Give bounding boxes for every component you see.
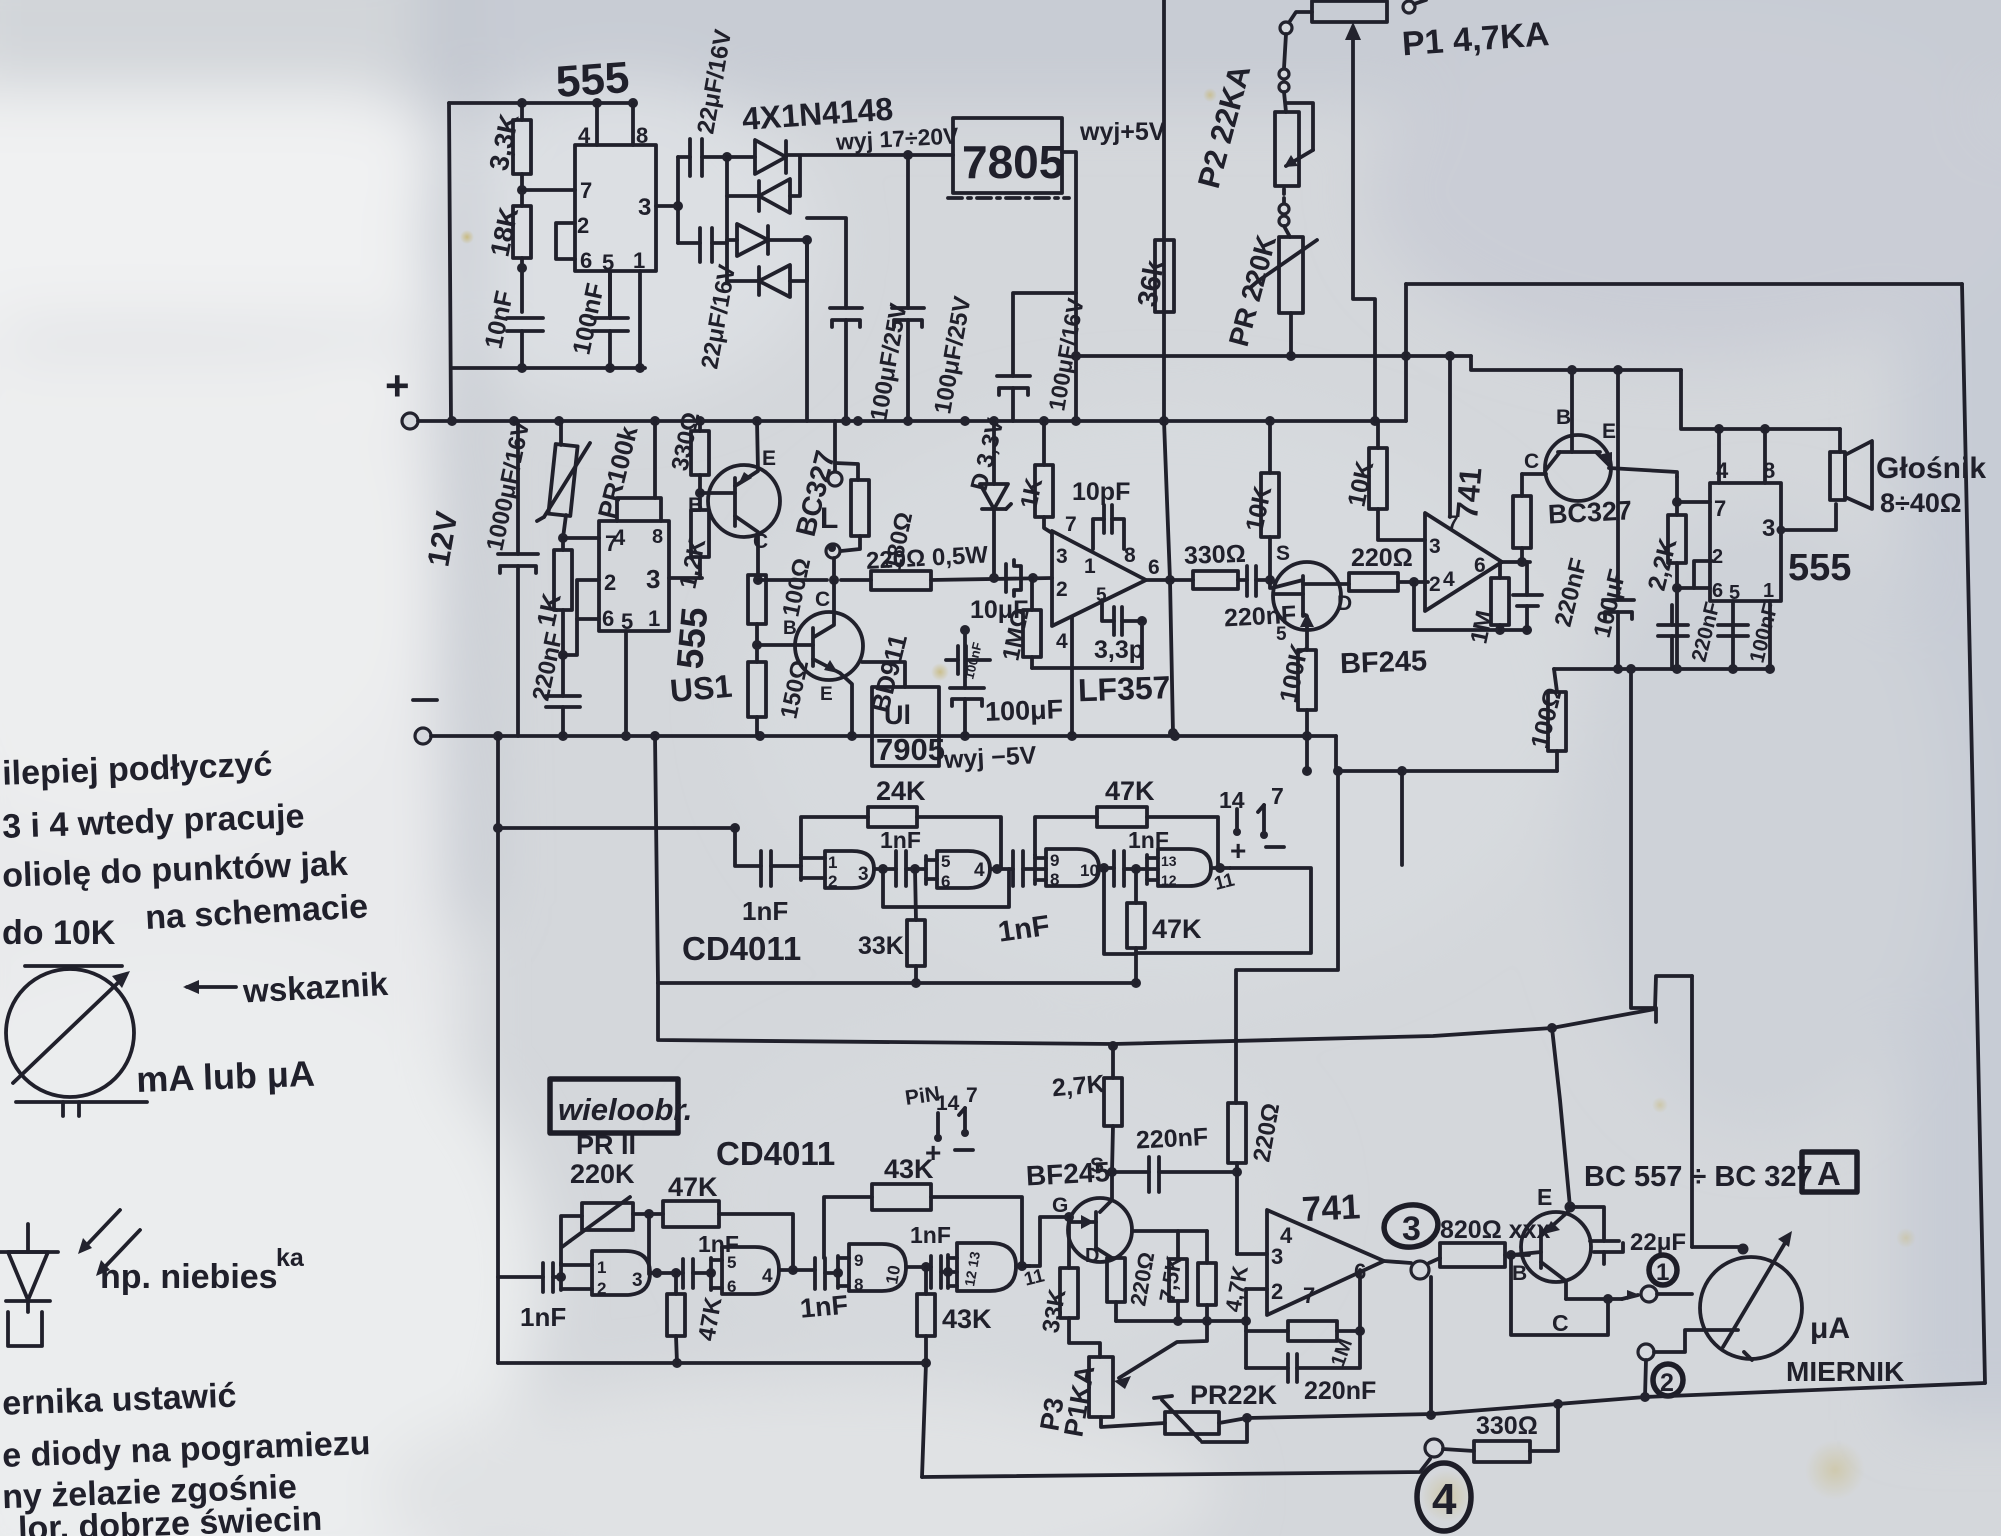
terminal - (12V input) <box>415 728 431 744</box>
wire gate feed from G8 output <box>1022 1217 1069 1266</box>
svg-text:3: 3 <box>1056 545 1068 568</box>
svg-text:3: 3 <box>638 194 651 221</box>
gate G2 (CD4011) <box>924 856 928 884</box>
terminal + (12V input) <box>402 413 418 429</box>
svg-text:330Ω: 330Ω <box>1476 1412 1538 1440</box>
wire pin5 to -rail <box>624 631 628 736</box>
svg-text:1: 1 <box>648 606 660 631</box>
svg-text:7: 7 <box>1303 1283 1315 1308</box>
IC UL 7905 regulator <box>872 687 939 766</box>
svg-text:L: L <box>820 502 838 535</box>
svg-text:B: B <box>1556 406 1571 429</box>
svg-text:1: 1 <box>1763 580 1774 602</box>
svg-text:9: 9 <box>1050 851 1059 870</box>
svg-text:+: + <box>385 362 410 409</box>
wire bottom long line <box>922 1459 1430 1477</box>
wire collector to terminal 1 <box>1566 1297 1622 1301</box>
wire +5V feed line y356 <box>1076 354 1471 358</box>
svg-text:wyj+5V: wyj+5V <box>1079 118 1166 146</box>
svg-text:E: E <box>1602 420 1616 443</box>
svg-text:C: C <box>1552 1310 1569 1336</box>
wire base-collector loop <box>1511 1255 1608 1335</box>
svg-text:4: 4 <box>1432 1475 1457 1524</box>
svg-text:3: 3 <box>1402 1210 1421 1248</box>
resistor 24K <box>801 817 868 855</box>
capacitor 1nF (G5-G6) <box>681 1259 685 1288</box>
capacitor 220nF (feedback) <box>1525 562 1529 595</box>
photodiode symbol <box>0 1250 58 1254</box>
diode D4 1N4148 <box>759 265 790 297</box>
svg-text:14: 14 <box>936 1092 960 1115</box>
svg-text:+: + <box>925 1137 941 1168</box>
svg-text:8: 8 <box>854 1275 863 1294</box>
resistor 220R (drain) <box>1107 1258 1125 1302</box>
svg-text:8: 8 <box>636 123 648 148</box>
svg-text:C: C <box>753 530 768 553</box>
wire bottom bus row2 <box>498 1361 926 1365</box>
svg-text:1: 1 <box>633 248 645 273</box>
potentiometer P1 4,7KA <box>1312 1 1387 22</box>
svg-text:4: 4 <box>613 525 626 550</box>
wire bottom feedback line L1 <box>1247 1383 1985 1418</box>
wire LF357 output <box>1146 578 1193 582</box>
svg-text:22μF: 22μF <box>1630 1229 1686 1256</box>
capacitor 22uF <box>1570 1207 1604 1241</box>
wire terminal1 to meter <box>1657 1292 1692 1296</box>
svg-text:4: 4 <box>1280 1223 1293 1248</box>
wire pin3 input <box>1237 1252 1267 1256</box>
svg-text:555: 555 <box>669 606 715 671</box>
wire right feed down from y284 line <box>1404 284 1408 421</box>
gate G1 (CD4011) <box>799 855 803 880</box>
resistor 1,2K <box>691 510 709 557</box>
svg-text:4: 4 <box>578 123 591 148</box>
wire block left drop from -rail <box>655 736 658 983</box>
wire node column pin3 <box>676 157 680 243</box>
potentiometer P2 22KA <box>1275 112 1299 186</box>
svg-text:6: 6 <box>1712 580 1723 602</box>
svg-text:7: 7 <box>1271 783 1284 809</box>
svg-text:8: 8 <box>1050 870 1059 889</box>
IC U1 555 body <box>575 145 656 271</box>
svg-text:LF357: LF357 <box>1077 669 1171 708</box>
wire left rail of 555 block <box>449 103 451 421</box>
svg-text:13: 13 <box>1161 853 1177 869</box>
resistor 1K (pin3 bias) <box>1042 421 1046 465</box>
svg-text:E: E <box>1537 1184 1552 1210</box>
meter symbol (wskaznik) <box>6 969 134 1097</box>
wire 741 output <box>1384 1261 1411 1263</box>
svg-text:Ul: Ul <box>884 700 911 730</box>
capacitor 100uF (7905 output) <box>963 630 967 688</box>
resistor 180R <box>851 480 869 536</box>
svg-text:741: 741 <box>1301 1187 1361 1229</box>
gate G7 <box>836 1256 840 1288</box>
gate G6 <box>709 1258 713 1290</box>
capacitor 100nF <box>592 316 628 320</box>
transistor BC327 (Q3) <box>1545 435 1611 501</box>
svg-text:wskaznik: wskaznik <box>241 965 389 1010</box>
svg-text:6: 6 <box>1148 556 1160 579</box>
op-amp 741 (U4) <box>1267 1210 1384 1315</box>
wire +12V rail <box>418 419 1406 423</box>
resistor 820R <box>1429 1258 1440 1263</box>
svg-text:6: 6 <box>941 872 950 891</box>
capacitor 220nF (coupling) <box>1245 566 1249 596</box>
svg-text:100μF: 100μF <box>984 694 1063 727</box>
capacitor 1nF (G7-G8) <box>929 1256 933 1288</box>
resistor 330R (bottom) <box>1443 1449 1474 1451</box>
terminal L upper (open circle) <box>833 421 837 471</box>
wire bottom bus of 555 block <box>452 366 645 370</box>
wire top-right horizontal y284 <box>1406 282 1962 286</box>
resistor 220R 0,5W <box>871 571 931 590</box>
wire bias node y1321 <box>1116 1319 1246 1323</box>
svg-text:3: 3 <box>1429 535 1441 558</box>
svg-text:2: 2 <box>577 213 589 238</box>
wire pin7 stub <box>563 536 599 540</box>
wire pin7 up to +5V line <box>1448 356 1452 517</box>
svg-text:1nF: 1nF <box>520 1302 566 1332</box>
wire pin2 input <box>1246 1287 1267 1291</box>
node top bus dots <box>517 98 527 108</box>
wire output down to feedback line <box>1429 1277 1433 1414</box>
capacitor 100uF/25V (A) <box>807 218 846 308</box>
svg-text:2: 2 <box>597 1279 606 1298</box>
terminal L lower (open circle) <box>826 544 840 558</box>
svg-text:+: + <box>1230 835 1246 866</box>
svg-text:555: 555 <box>1788 547 1851 589</box>
circled 2 <box>1653 1364 1683 1396</box>
svg-text:33K: 33K <box>858 932 904 960</box>
svg-text:47K: 47K <box>668 1172 718 1202</box>
resistor 150R <box>748 662 766 717</box>
svg-text:μA: μA <box>1810 1312 1850 1345</box>
svg-text:7: 7 <box>580 178 592 203</box>
capacitor 22uF/16V (lower) <box>698 228 702 262</box>
resistor 18K <box>513 206 531 258</box>
svg-text:wyj −5V: wyj −5V <box>942 741 1037 774</box>
resistor 1MR (input to fb bus) <box>1030 578 1034 610</box>
node pot/47K junction <box>633 1212 663 1216</box>
wire 555 bus to lower section <box>1631 669 1656 1022</box>
svg-text:4: 4 <box>1056 630 1068 653</box>
svg-text:9: 9 <box>854 1251 863 1270</box>
resistor 100R <box>748 575 766 624</box>
terminal 4 (open circle) <box>1425 1439 1443 1457</box>
svg-text:S: S <box>1276 542 1290 565</box>
capacitor 220nF (source coupling) <box>1112 1170 1149 1174</box>
svg-text:1nF: 1nF <box>799 1290 849 1324</box>
wire pin7 stub <box>1677 500 1710 504</box>
transistor BC557 (Q4) <box>1521 1212 1591 1282</box>
capacitor 1000uF/16V <box>516 421 520 554</box>
svg-text:24K: 24K <box>876 776 926 806</box>
terminal 3 (open circle) <box>1411 1261 1429 1279</box>
svg-text:2: 2 <box>1660 1369 1674 1397</box>
resistor 3,3K <box>520 103 524 120</box>
svg-text:8: 8 <box>652 526 663 548</box>
resistor 220R (vertical, bias) <box>1228 1103 1246 1163</box>
wire pin3 to speaker <box>1781 504 1836 530</box>
speaker Głośnik <box>1838 429 1842 452</box>
resistor 7,5K <box>1176 1231 1180 1259</box>
svg-text:220K: 220K <box>570 1159 635 1189</box>
wire terminal2 to meter <box>1654 1330 1738 1352</box>
meter MIERNIK <box>1700 1257 1802 1359</box>
wire bottom bus row1 <box>658 981 1136 985</box>
wire -rail drop to y771 bus <box>1336 736 1557 771</box>
resistor 330R <box>698 421 702 431</box>
trimmer PR100k <box>559 421 563 445</box>
wire -12V rail <box>431 734 1336 738</box>
svg-text:3: 3 <box>632 1270 643 1291</box>
svg-text:D: D <box>1337 592 1352 615</box>
capacitor 100nF (7905) <box>956 646 960 674</box>
resistor 4,7K <box>1205 1231 1209 1263</box>
svg-text:43K: 43K <box>942 1304 992 1334</box>
gate G8 <box>946 1255 950 1288</box>
svg-text:C: C <box>815 588 830 611</box>
capacitor 3,3p <box>1102 600 1114 621</box>
resistor 2,7K <box>1108 1041 1118 1051</box>
op-amp LF357 <box>1052 531 1146 626</box>
svg-text:220Ω: 220Ω <box>1351 544 1413 572</box>
wire pin1/pin5 to bottom bus <box>608 271 612 318</box>
gate G5 <box>559 1263 563 1290</box>
resistor 10K (left) <box>1268 421 1272 473</box>
svg-text:MIERNIK: MIERNIK <box>1786 1356 1904 1387</box>
wire y370 feed <box>1471 356 1681 370</box>
IC 555 (output timer) body <box>1710 483 1781 601</box>
svg-text:mA lub μA: mA lub μA <box>136 1053 316 1100</box>
svg-text:ka: ka <box>276 1244 305 1272</box>
svg-text:4: 4 <box>974 860 985 881</box>
wire G1 loop down <box>883 869 1009 907</box>
wire row1 bus to 2,7K <box>658 983 1113 1044</box>
svg-text:B: B <box>1512 1262 1527 1285</box>
capacitor 100uF/16V <box>1013 293 1076 376</box>
wire G4 output to lower section <box>1136 868 1311 953</box>
svg-text:1nF: 1nF <box>742 896 788 926</box>
svg-text:2: 2 <box>1056 578 1068 601</box>
wire ground bus under 555 <box>1554 667 1770 671</box>
svg-text:7: 7 <box>1065 513 1077 536</box>
svg-text:1: 1 <box>1084 555 1096 578</box>
wire pins 4/8 to +rail <box>617 498 661 521</box>
wire pin2-pin6 loop <box>556 223 575 259</box>
wire emitter long feed <box>1113 1028 1552 1044</box>
svg-text:2: 2 <box>1429 573 1441 596</box>
svg-text:1: 1 <box>828 853 837 872</box>
terminal 1 (open circle) <box>1641 1286 1657 1302</box>
transistor BF245 (JFET T1) <box>1273 562 1341 630</box>
capacitor 10uF (input) <box>1004 564 1008 592</box>
resistor 100K <box>1298 650 1316 710</box>
wire feedback bus LF357 <box>1032 666 1142 670</box>
wiper P1 <box>1353 30 1375 421</box>
svg-text:BF245: BF245 <box>1025 1156 1111 1191</box>
svg-text:BC 557 ÷ BC 327: BC 557 ÷ BC 327 <box>1584 1161 1813 1193</box>
resistor 33K (gate bias) <box>1060 1268 1078 1318</box>
resistor 10K (right) <box>1376 421 1380 448</box>
capacitor 22uF/16V (top) <box>688 139 692 176</box>
svg-text:BF245: BF245 <box>1339 645 1427 680</box>
svg-text:47K: 47K <box>1105 776 1155 806</box>
svg-text:wieloobr.: wieloobr. <box>558 1092 692 1127</box>
svg-text:330Ω: 330Ω <box>1183 540 1246 570</box>
wire G3 output loop <box>1104 868 1136 954</box>
diode D 3,3V zener <box>992 421 996 484</box>
svg-text:10pF: 10pF <box>1072 478 1130 506</box>
svg-text:7905: 7905 <box>876 732 945 767</box>
IC 7805 regulator <box>953 118 1062 193</box>
svg-text:PR22K: PR22K <box>1190 1380 1278 1410</box>
svg-text:3,3p: 3,3p <box>1094 636 1144 664</box>
resistor 330R (output) <box>1193 571 1238 589</box>
resistor 47K (vertical row2) <box>674 1273 678 1294</box>
resistor 47K (vertical row1) <box>1134 869 1138 903</box>
capacitor 1nF (G6-G7) <box>813 1258 817 1289</box>
resistor (collector to output) <box>1520 548 1524 562</box>
resistor 1M (feedback) <box>1498 562 1502 578</box>
resistor 100R (bus drop) <box>1554 669 1557 692</box>
wire pins 4/8 to supply <box>1717 429 1721 483</box>
svg-text:1nF: 1nF <box>880 827 921 853</box>
gate G4 (CD4011) <box>1145 855 1149 884</box>
svg-text:4: 4 <box>1443 568 1455 591</box>
svg-text:C: C <box>1524 450 1539 473</box>
svg-text:PR II: PR II <box>576 1130 636 1160</box>
gate G3 (CD4011) <box>1033 855 1037 884</box>
svg-text:6: 6 <box>727 1277 736 1296</box>
svg-text:Głośnik: Głośnik <box>1876 452 1986 485</box>
resistor 220R (to pin2) <box>1340 582 1349 586</box>
capacitor 100uF (filter) <box>1616 370 1620 600</box>
box wieloobr. <box>550 1079 678 1133</box>
capacitor 100uF/25V (B) <box>906 155 910 308</box>
svg-text:7: 7 <box>966 1084 978 1107</box>
node PR100k/1K junction <box>563 515 566 538</box>
wire collector bus <box>758 578 827 582</box>
resistor 2,2K <box>1672 497 1682 507</box>
trimmer PR 220K <box>1279 237 1303 313</box>
wire pin4 to -rail <box>1070 617 1074 733</box>
svg-text:2: 2 <box>828 872 837 891</box>
diode D2 1N4148 <box>759 179 790 213</box>
svg-text:10: 10 <box>1080 861 1099 880</box>
wire pins 5/1 down <box>1731 601 1735 669</box>
svg-text:741: 741 <box>1449 466 1488 521</box>
resistor 47K row2 <box>663 1201 719 1227</box>
svg-text:2: 2 <box>1271 1279 1283 1304</box>
circled 3 <box>1381 1201 1440 1250</box>
wire drain node line <box>1132 1229 1207 1233</box>
terminal 2 (open circle) <box>1638 1344 1654 1360</box>
wire P2 to PR220K with junction circles <box>1282 189 1286 203</box>
svg-text:6: 6 <box>580 248 592 273</box>
wire main vertical feed (36k line) <box>1164 0 1173 733</box>
svg-text:CD4011: CD4011 <box>682 930 801 967</box>
wire output 741 <box>1502 560 1530 564</box>
resistor 43K (top row2) <box>824 1197 872 1258</box>
wire pin3 output <box>656 204 678 208</box>
arrow to wskaznik <box>187 985 236 989</box>
wire 7805 output +5V <box>1062 152 1076 421</box>
svg-text:2,7K: 2,7K <box>1051 1070 1106 1102</box>
transistor BF245 (JFET T2) <box>1068 1198 1132 1262</box>
resistor 1M (feedback U4) <box>1246 1329 1288 1333</box>
capacitor 1nF (input row1) <box>759 851 763 886</box>
svg-text:2: 2 <box>1712 546 1723 568</box>
wire block2 left tall drop <box>496 736 500 1363</box>
svg-text:5: 5 <box>1276 624 1287 645</box>
svg-text:np. niebies: np. niebies <box>100 1258 278 1296</box>
IC US1 555 body <box>599 521 669 631</box>
resistor 36k <box>1155 240 1174 312</box>
svg-text:4: 4 <box>762 1266 773 1287</box>
trimmer PR22K <box>1165 1412 1219 1434</box>
capacitor 1nF (G1-G2) <box>894 851 898 886</box>
wire pin6 stub + pin2 loop <box>1677 586 1710 590</box>
svg-text:3: 3 <box>1762 515 1775 542</box>
svg-text:6: 6 <box>1474 554 1486 577</box>
svg-text:555: 555 <box>554 53 631 107</box>
capacitor 100nF (555) <box>1718 623 1748 627</box>
svg-text:3: 3 <box>646 564 660 594</box>
node collector BC327 <box>753 575 763 585</box>
wire PR220K to +5V line <box>1289 313 1293 356</box>
capacitor 10nF <box>507 316 543 320</box>
potentiometer P3 P1KA <box>1089 1357 1113 1417</box>
light arrows <box>82 1210 120 1250</box>
wire stub down from y771 <box>1400 771 1404 865</box>
wire right border vertical <box>1962 284 1985 1383</box>
wire feed to 220R column <box>1236 771 1338 1103</box>
wire bus2 down to bottom line <box>922 1363 926 1477</box>
svg-text:A: A <box>1817 1155 1841 1192</box>
diode D1 1N4148 <box>727 155 755 159</box>
svg-text:12: 12 <box>1161 872 1177 888</box>
wire feedback 741 <box>1414 582 1530 630</box>
resistor 33K <box>915 869 916 920</box>
svg-text:E: E <box>762 447 776 470</box>
svg-text:B: B <box>783 618 797 639</box>
svg-text:8÷40Ω: 8÷40Ω <box>1880 488 1962 518</box>
svg-text:US1: US1 <box>668 668 733 709</box>
resistor 47K (top row1) <box>1035 817 1097 855</box>
capacitor 220nF (US1) <box>546 694 580 698</box>
wire diode ladder left rail <box>725 157 729 281</box>
svg-text:10: 10 <box>882 1264 904 1286</box>
svg-text:1: 1 <box>597 1258 606 1277</box>
wire pin3 output US1 <box>669 576 702 580</box>
capacitor 220nF (555 pin5) <box>1670 605 1674 625</box>
wire P1 to P2 <box>1284 34 1286 68</box>
svg-text:7805: 7805 <box>962 136 1064 188</box>
transistor BC327 (Q1) <box>708 465 780 537</box>
capacitor 220nF (feedback U4) <box>1246 1366 1288 1370</box>
svg-text:5: 5 <box>727 1253 736 1272</box>
capacitor 1nF (input row2) <box>498 1275 543 1279</box>
resistor 43K (vertical row2) <box>924 1267 928 1294</box>
svg-text:do 10K: do 10K <box>2 914 116 952</box>
svg-text:7: 7 <box>1714 496 1726 521</box>
capacitor 1nF (G2-G3) <box>1011 851 1015 886</box>
circled 4 <box>1417 1463 1471 1531</box>
svg-text:D: D <box>1085 1245 1099 1267</box>
wire step down to 555 supply <box>1681 370 1840 429</box>
